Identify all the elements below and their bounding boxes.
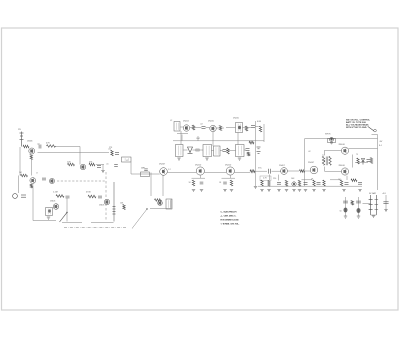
transistor Q9 converter [183,125,189,131]
wire top row link a [180,126,183,128]
wire Q15 collector [349,148,378,150]
svg-text:VOL: VOL [258,168,262,170]
svg-text:.02: .02 [308,151,311,153]
capacitor C2 [97,166,101,168]
resistor R25 [357,158,359,164]
transistor Q7 [160,168,168,176]
wire VR2 down [170,199,172,209]
wire bus drop a [237,133,239,145]
svg-text:SPKR: SPKR [325,134,331,136]
svg-text:9V. BAT.: 9V. BAT. [369,192,377,195]
ground G7 [277,189,280,191]
ground G24 [200,189,203,191]
wire conv down [180,131,182,145]
svg-text:+8.8: +8.8 [382,193,386,195]
wire left rail [19,147,21,176]
interstage secondary T5b [329,156,331,165]
wire sig b [205,171,227,173]
wire Q11 emitter row [192,177,206,179]
IF transformer T3 [214,146,221,156]
wire speaker feed [304,139,306,186]
svg-text:2N406: 2N406 [27,141,32,143]
electrolytic C27 [257,146,261,148]
wire speaker line [305,138,378,140]
wire conv [177,133,188,135]
wire bus tap1 [181,135,183,141]
ground G14 [372,216,375,218]
resistor R22 [230,180,232,186]
resistor R16 [219,126,221,131]
wire base Q16 [325,170,342,172]
wire Q12 down [229,175,231,178]
on-off switch S2 [368,126,374,130]
svg-text:50: 50 [340,211,342,213]
svg-text:2N408: 2N408 [339,165,346,167]
capacitor C24 [343,201,348,203]
svg-text:2N410: 2N410 [225,165,232,167]
svg-text:2N412: 2N412 [183,121,189,123]
resistor R8 [30,184,32,188]
svg-text:8.4: 8.4 [379,145,383,147]
capacitor C3 [115,153,119,155]
ground G20 [260,189,263,191]
resistor R20 [247,152,249,156]
resistor R26 [370,158,372,164]
capacitor C5 [66,196,70,198]
wire x264 [263,124,265,142]
ground G21 [267,189,270,191]
speaker LS1 [328,139,336,143]
resistor R19 [227,148,229,154]
svg-text:OSC: OSC [196,138,201,140]
wire drop at x80 [79,147,81,165]
ground G8 [285,189,288,191]
wire sig a [168,171,197,173]
wire if link c [199,149,203,151]
wire det a [256,170,268,172]
converter coil L3 [236,123,243,133]
svg-text:2N410: 2N410 [233,118,240,120]
resistor R12 [123,205,125,210]
resistor R1 [23,145,29,148]
ground G25 [230,189,233,191]
transistor Q11 [196,167,204,175]
wire bottom left bus [33,220,56,222]
wire top row link c [206,127,210,129]
wire decouple a [345,197,347,216]
interstage primary T5a [322,156,324,165]
transistor Q16 output2 [341,168,348,175]
wire if link e [220,150,223,152]
svg-text:75: 75 [356,154,358,156]
junction T2 tap [324,160,325,161]
wire left edge [18,176,20,194]
resistor R39 [300,170,305,173]
capacitor C23 [383,202,388,204]
svg-text:L2: L2 [170,120,172,122]
resistor R7 [21,174,28,177]
wire Q3 emitter down [32,188,34,221]
resistor R2 [30,155,32,160]
ground G15 [384,210,387,212]
resistor R9 [56,195,64,198]
wire top row link b [190,127,202,129]
capacitor C32 [114,165,118,167]
ground G23 [298,189,301,191]
ground G2 [177,158,180,160]
control VR2 [166,199,172,209]
wire if link f [226,150,236,152]
capacitor C6 [98,196,102,198]
svg-text:1K: 1K [189,182,192,184]
wire battery rail [377,135,379,191]
wire bottom bus 3 [62,222,82,224]
wire row1 bus [56,146,81,148]
diode CR2 [362,159,365,162]
transistor Q4 [49,178,54,183]
resistor R5 [89,163,95,166]
ground G12 [342,189,345,191]
resistor R37 [249,141,254,144]
capacitor C12 [246,149,250,151]
wire row3 dashed [57,180,106,182]
wire det tap [268,175,270,181]
svg-text:PU: PU [18,129,21,131]
capacitor C1 [39,145,41,149]
capacitor C17 [277,182,281,184]
svg-text:2N410: 2N410 [208,121,215,123]
wire x151 [150,173,152,197]
svg-text:WITH VTVM TO GND.: WITH VTVM TO GND. [346,127,367,129]
capacitor C13 [200,182,204,184]
ground G11 [322,189,325,191]
transistor Q6 [104,199,110,205]
transistor Q10 IF1 [210,125,216,131]
wire Q1 emitter [30,160,32,176]
capacitor C10 [251,126,255,128]
wire row mid [131,173,160,175]
pickup input J1 [20,132,24,147]
wire bus tap2 [197,136,199,141]
resistor R14 [155,199,162,202]
switch S1 [60,212,68,222]
wire switch to rail [372,134,378,136]
wire base Q14 [305,170,311,172]
wire tall right mid [255,121,257,186]
wire shield partition [105,172,107,220]
resistor R29 [298,180,300,186]
svg-text:10K: 10K [120,203,124,205]
electrolytic C29 knot [344,208,348,213]
svg-text:2N407: 2N407 [279,165,285,167]
wire det tap2 [277,175,279,181]
wire Q11 down [199,175,201,178]
wire bottom mid [150,208,171,210]
svg-text:2N406: 2N406 [99,205,104,207]
wire T2 top lead [324,150,326,155]
wire battery bottom [371,214,377,216]
wire top row link d [216,127,224,129]
svg-text:T2: T2 [322,155,324,157]
wire R9 down [66,198,68,222]
transistor Q14 driver [310,166,318,174]
svg-text:1K: 1K [219,182,222,184]
svg-text:-9V: -9V [379,141,383,143]
leader line [132,209,147,229]
svg-text:4.7K: 4.7K [263,178,268,180]
wire bottom chain b [302,179,313,181]
capacitor C9 [202,127,206,129]
svg-text:10K: 10K [291,178,295,180]
wire if link b [193,149,197,151]
ground G9 [304,189,307,191]
svg-text:.8: .8 [36,173,38,175]
ground G13 [358,189,361,191]
ground G1 [101,171,104,173]
transistor Q8 [158,201,163,206]
wire Q7 down [162,176,164,197]
ground G26 [47,217,50,219]
capacitor C26 [223,150,227,152]
resistor R11 [88,195,96,198]
wire between outputs [352,155,354,168]
resistor R15 [192,125,194,130]
wire base Q15 [325,149,342,151]
IF transformer T1 [176,145,184,157]
coupling choke L1 [122,157,132,162]
VR1 wiper mark [48,209,51,212]
transistor Q2 [80,164,86,170]
ground G4 [238,158,241,160]
wire bottom bus right [258,185,362,187]
resistor R18 [259,126,261,132]
svg-text:47K: 47K [46,143,50,145]
svg-text:.02: .02 [200,124,203,126]
ground G3 [205,158,208,160]
transistor Q1 [29,148,35,154]
volume control VR1 [46,208,53,216]
wire box1 down [130,162,132,174]
ground G10 [312,189,315,191]
svg-text:1.2: 1.2 [168,169,171,171]
svg-text:2N407: 2N407 [159,164,166,166]
antenna coil L2 [174,122,180,132]
wire sig c [235,171,251,173]
resistor R21 [192,180,194,186]
svg-text:2N406: 2N406 [50,201,55,203]
IF transformer T4 [236,145,245,157]
resistor R3 [47,145,56,148]
wire splitter to driver [288,170,300,172]
resistor R23 [250,170,255,173]
svg-text:SW. ON VOL. CONTROL: SW. ON VOL. CONTROL [346,120,371,122]
wire bottom bus 2 [91,222,114,224]
ground G18 [357,216,360,218]
svg-text:2.2M: 2.2M [53,192,58,194]
wire if link g [244,149,246,151]
resistor R17 [245,126,247,131]
capacitor C25 [356,201,361,203]
shield dash line [64,227,126,229]
resistor R32 [340,180,342,186]
wire T2 bottom lead [324,167,326,172]
wire top bus [173,140,264,142]
resistor R27 [285,180,287,186]
svg-text:470K: 470K [86,192,91,194]
IF transformer T2 [203,145,212,157]
wire bat link [363,203,371,205]
wire top row link g [255,126,259,128]
transistor Q3 [30,178,36,184]
capacitor C20 [317,182,321,184]
resistor R38 [268,181,270,187]
transistor Q12 [226,167,234,175]
svg-text:C– ELECTROLYT.: C– ELECTROLYT. [221,211,238,213]
phono jack J2 [13,194,18,199]
svg-text:220: 220 [273,178,276,180]
wire if1 down [212,132,214,146]
transistor Q15 output1 [341,147,348,154]
transistor Q5 [53,204,59,210]
capacitor C21 [345,183,349,185]
ground G19 [254,187,257,189]
electrolytic C8 [141,172,150,177]
svg-text:R IN OHMS K=1000: R IN OHMS K=1000 [221,219,240,221]
wire top row link f [243,127,252,129]
wire bottom chain c [330,179,340,181]
resistor R33 [351,179,357,182]
wire aux rail [385,195,387,210]
svg-text:2N410: 2N410 [195,165,202,167]
wire if link a [183,149,188,151]
resistor R24 [261,180,263,186]
transistor Q18 agc [292,182,296,186]
thermistor squiggle [351,201,353,206]
wire to right block [272,170,281,172]
resistor R30 [313,180,315,186]
transistor Q17 in shield [238,126,241,130]
capacitor C4 [42,178,46,180]
svg-text:△– CER. DISC C.: △– CER. DISC C. [220,214,237,217]
ground G6 [223,189,226,191]
electrolytic C7 [113,182,115,222]
ground G5 [192,189,195,191]
capacitor C31 [144,169,148,171]
svg-text:2N407: 2N407 [308,162,315,164]
capacitor C15 [269,169,271,174]
resistor R31 [323,180,325,186]
capacitor C11 [196,149,200,151]
capacitor C16 [367,160,371,162]
trimmer TC1 [188,147,193,153]
ground G22 [292,189,295,191]
wire if link d [212,150,214,152]
wire row2 [96,164,104,166]
svg-text:2N408: 2N408 [339,144,346,146]
transistor Q13 phase splitter [281,168,288,175]
wire row2 down [102,165,104,171]
electrolytic C30 knot [357,208,361,213]
capacitor C22 [358,182,362,184]
svg-text:.01: .01 [106,164,109,166]
svg-text:1M: 1M [19,172,22,174]
wire decouple b [358,197,360,216]
wire branch y152 [38,151,110,153]
wire bias row [355,162,368,164]
resistor R6 [111,150,113,156]
wire Q16 down [346,176,348,180]
battery B1 [370,195,372,215]
transformer core lines [325,157,327,166]
capacitor C14 [223,182,227,184]
ground G16 [344,216,347,218]
resistor R4 [68,163,75,166]
svg-text:L1: L1 [126,160,128,162]
svg-text:6.8K: 6.8K [257,121,262,123]
wire top row link e [226,127,236,129]
volume control outline [260,176,271,181]
wire Q12 emitter row [222,177,236,179]
capacitor C19 [304,183,308,185]
svg-text:½ W RES. 10% TOL.: ½ W RES. 10% TOL. [221,221,240,225]
